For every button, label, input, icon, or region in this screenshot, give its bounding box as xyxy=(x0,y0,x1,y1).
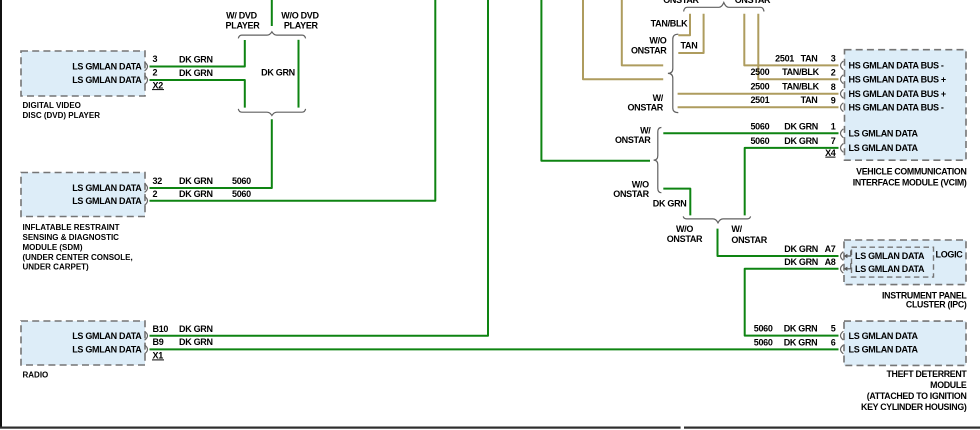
svg-text:ONSTAR: ONSTAR xyxy=(667,234,703,244)
module box RADIO xyxy=(21,321,145,365)
svg-text:X2: X2 xyxy=(153,80,164,90)
svg-text:32: 32 xyxy=(153,176,163,186)
svg-text:UNDER CARPET): UNDER CARPET) xyxy=(23,263,90,272)
svg-text:DK GRN: DK GRN xyxy=(784,257,818,267)
label W/ ONSTAR for HS brace xyxy=(627,93,663,113)
svg-text:INFLATABLE RESTRAINT: INFLATABLE RESTRAINT xyxy=(23,223,120,232)
svg-text:HS GMLAN DATA BUS +: HS GMLAN DATA BUS + xyxy=(849,74,946,84)
svg-text:DK GRN: DK GRN xyxy=(784,324,818,334)
tan wire from top to HS brace upper row xyxy=(583,0,663,79)
svg-text:VEHICLE COMMUNICATION: VEHICLE COMMUNICATION xyxy=(856,167,966,177)
svg-text:CLUSTER (IPC): CLUSTER (IPC) xyxy=(906,299,967,309)
svg-text:HS GMLAN DATA BUS +: HS GMLAN DATA BUS + xyxy=(849,89,946,99)
tan wire TAN/BLK from onstar brace xyxy=(678,14,690,36)
svg-text:(ATTACHED TO IGNITION: (ATTACHED TO IGNITION xyxy=(867,391,967,401)
module box IPC xyxy=(844,240,966,285)
label W/O ONSTAR under merge brace xyxy=(667,224,703,244)
svg-text:DK GRN: DK GRN xyxy=(784,244,818,254)
svg-text:2501: 2501 xyxy=(750,95,769,105)
svg-text:ONSTAR: ONSTAR xyxy=(731,235,767,245)
svg-text:3: 3 xyxy=(831,54,836,64)
svg-text:THEFT DETERRENT: THEFT DETERRENT xyxy=(886,369,967,379)
svg-text:W/: W/ xyxy=(653,93,664,103)
frame left border xyxy=(0,0,2,428)
svg-text:ONSTAR: ONSTAR xyxy=(627,103,663,113)
svg-text:TAN/BLK: TAN/BLK xyxy=(782,82,820,92)
wire DVD pin2 DK GRN xyxy=(150,80,245,108)
svg-text:PLAYER: PLAYER xyxy=(226,21,261,31)
svg-text:7: 7 xyxy=(831,136,836,146)
svg-text:B10: B10 xyxy=(153,324,169,334)
wire SDM pin2 to top edge xyxy=(150,0,436,201)
svg-text:DK GRN: DK GRN xyxy=(179,189,213,199)
svg-text:ONSTAR: ONSTAR xyxy=(613,189,649,199)
svg-text:HS GMLAN DATA BUS -: HS GMLAN DATA BUS - xyxy=(849,102,944,112)
svg-text:DIGITAL VIDEO: DIGITAL VIDEO xyxy=(23,101,81,110)
svg-text:W/ DVD: W/ DVD xyxy=(226,10,257,20)
wire VCIM pin1 DK GRN xyxy=(663,132,838,134)
svg-text:MODULE (SDM): MODULE (SDM) xyxy=(23,243,83,252)
tan wire TAN from onstar brace xyxy=(678,14,703,53)
wire DVD pin3 DK GRN xyxy=(150,40,245,67)
svg-text:W/O: W/O xyxy=(649,36,666,46)
brace ONSTAR top merge xyxy=(684,3,764,12)
svg-text:DK GRN: DK GRN xyxy=(653,198,687,208)
svg-text:DK GRN: DK GRN xyxy=(784,122,818,132)
module name SDM xyxy=(23,223,133,272)
svg-text:MODULE: MODULE xyxy=(930,380,967,390)
svg-text:LS GMLAN DATA: LS GMLAN DATA xyxy=(849,345,919,355)
svg-text:5: 5 xyxy=(831,324,836,334)
label W/ ONSTAR under merge brace xyxy=(731,224,767,245)
svg-text:DK GRN: DK GRN xyxy=(784,136,818,146)
brace LS selection W/ vs W/O ONSTAR xyxy=(654,128,662,193)
svg-text:9: 9 xyxy=(831,95,836,105)
tan wire VCIM pin9 xyxy=(678,106,839,108)
tan wire VCIM pin8 xyxy=(678,93,839,95)
IPC logic inner box xyxy=(852,247,934,277)
connector parens Theft xyxy=(841,331,844,354)
svg-text:X1: X1 xyxy=(153,351,164,361)
wire stub above DVD brace xyxy=(271,0,273,26)
svg-text:5060: 5060 xyxy=(754,337,773,347)
svg-text:W/O: W/O xyxy=(632,180,649,190)
brace DVD merge bottom xyxy=(238,109,305,116)
signal arrow IPC A7 xyxy=(846,251,851,257)
svg-text:TAN: TAN xyxy=(681,40,698,50)
svg-text:5060: 5060 xyxy=(232,176,251,186)
svg-text:5060: 5060 xyxy=(750,122,769,132)
svg-text:INTERFACE MODULE (VCIM): INTERFACE MODULE (VCIM) xyxy=(853,178,967,188)
svg-text:ONSTAR: ONSTAR xyxy=(735,0,771,5)
wire radio B9 to theft pin6 xyxy=(150,348,839,350)
svg-text:ONSTAR: ONSTAR xyxy=(631,46,667,56)
module box SDM xyxy=(21,173,145,217)
svg-text:2501: 2501 xyxy=(775,53,794,63)
svg-text:DK GRN: DK GRN xyxy=(784,337,818,347)
wire W/O onstar stub from LS brace xyxy=(663,189,690,216)
wire radio B10 to top edge xyxy=(150,0,489,336)
svg-text:LS GMLAN DATA: LS GMLAN DATA xyxy=(849,129,919,139)
svg-text:KEY CYLINDER HOUSING): KEY CYLINDER HOUSING) xyxy=(861,402,967,412)
svg-text:DISC (DVD) PLAYER: DISC (DVD) PLAYER xyxy=(23,111,101,120)
svg-text:2500: 2500 xyxy=(750,82,769,92)
connector parens IPC xyxy=(841,252,844,274)
svg-text:W/O: W/O xyxy=(676,224,693,234)
svg-text:LS GMLAN DATA: LS GMLAN DATA xyxy=(849,331,919,341)
svg-text:LS GMLAN DATA: LS GMLAN DATA xyxy=(855,251,925,261)
svg-text:5060: 5060 xyxy=(754,324,773,334)
brace HS selection W/O vs W/ ONSTAR xyxy=(668,34,678,112)
svg-text:ONSTAR: ONSTAR xyxy=(663,0,699,5)
wire IPC A8 to theft pin5 xyxy=(745,269,839,336)
tan wire VCIM pin2 xyxy=(758,14,838,79)
svg-text:LS GMLAN DATA: LS GMLAN DATA xyxy=(72,196,142,206)
svg-text:PLAYER: PLAYER xyxy=(284,21,319,31)
label W/O DVD PLAYER xyxy=(281,10,319,30)
svg-text:B9: B9 xyxy=(153,337,164,347)
svg-text:DK GRN: DK GRN xyxy=(179,337,213,347)
tan wire VCIM pin3 xyxy=(744,14,838,66)
module box Theft Deterrent xyxy=(844,321,966,365)
frame bottom border left segment xyxy=(0,427,681,429)
wire VCIM pin7 down to merge brace xyxy=(745,148,839,216)
svg-text:DK GRN: DK GRN xyxy=(179,55,213,65)
svg-text:LS GMLAN DATA: LS GMLAN DATA xyxy=(855,264,925,274)
svg-text:2500: 2500 xyxy=(750,67,769,77)
svg-text:8: 8 xyxy=(831,82,836,92)
svg-text:A7: A7 xyxy=(825,244,836,254)
svg-text:2: 2 xyxy=(831,67,836,77)
wire from DVD lower brace to SDM pin32 xyxy=(150,119,272,188)
brace merge to IPC xyxy=(683,216,750,222)
connector parens DVD xyxy=(145,62,148,84)
svg-text:LS GMLAN DATA: LS GMLAN DATA xyxy=(72,75,142,85)
svg-text:LS GMLAN DATA: LS GMLAN DATA xyxy=(72,183,142,193)
tan wire from top to HS brace lower row xyxy=(622,0,663,65)
frame bottom border right segment xyxy=(684,427,980,429)
svg-text:TAN/BLK: TAN/BLK xyxy=(782,67,820,77)
svg-text:DK GRN: DK GRN xyxy=(179,176,213,186)
svg-text:HS GMLAN DATA BUS -: HS GMLAN DATA BUS - xyxy=(849,61,944,71)
svg-text:LOGIC: LOGIC xyxy=(936,249,964,259)
module box DVD player xyxy=(21,51,145,96)
svg-text:1: 1 xyxy=(831,122,836,132)
wire merge brace output to IPC A7 xyxy=(718,229,839,256)
svg-text:LS GMLAN DATA: LS GMLAN DATA xyxy=(72,62,142,72)
svg-text:RADIO: RADIO xyxy=(23,371,49,380)
module name Theft Deterrent xyxy=(861,369,967,412)
svg-text:LS GMLAN DATA: LS GMLAN DATA xyxy=(72,331,142,341)
svg-text:3: 3 xyxy=(153,54,158,64)
label W/O ONSTAR for HS brace xyxy=(631,36,667,56)
connector parens RADIO xyxy=(145,331,148,354)
svg-text:5060: 5060 xyxy=(750,136,769,146)
svg-text:DK GRN: DK GRN xyxy=(179,324,213,334)
svg-text:A8: A8 xyxy=(825,257,836,267)
svg-text:5060: 5060 xyxy=(232,189,251,199)
svg-text:ONSTAR: ONSTAR xyxy=(615,135,651,145)
svg-text:6: 6 xyxy=(831,337,836,347)
wire W/O DVD bypass DK GRN xyxy=(298,40,300,108)
svg-text:W/: W/ xyxy=(731,224,742,234)
module name DVD xyxy=(23,101,101,120)
connector parens VCIM xyxy=(841,61,844,152)
svg-text:SENSING & DIAGNOSTIC: SENSING & DIAGNOSTIC xyxy=(23,233,120,242)
connector parens SDM xyxy=(145,184,148,206)
svg-text:DK GRN: DK GRN xyxy=(179,68,213,78)
signal arrow IPC A8 xyxy=(846,263,851,269)
svg-text:2: 2 xyxy=(153,189,158,199)
svg-text:TAN: TAN xyxy=(801,95,818,105)
module name IPC xyxy=(882,290,967,309)
module name VCIM xyxy=(853,167,967,188)
svg-text:(UNDER CENTER CONSOLE,: (UNDER CENTER CONSOLE, xyxy=(23,253,133,262)
svg-text:TAN/BLK: TAN/BLK xyxy=(651,18,689,28)
svg-text:LS GMLAN DATA: LS GMLAN DATA xyxy=(72,345,142,355)
label W/O ONSTAR for LS brace xyxy=(613,180,649,200)
svg-text:DK GRN: DK GRN xyxy=(261,68,295,78)
brace W/ DVD vs W/O DVD top xyxy=(238,32,305,39)
svg-text:W/O DVD: W/O DVD xyxy=(281,10,319,20)
module box VCIM xyxy=(845,50,967,161)
svg-text:TAN: TAN xyxy=(801,53,818,63)
label W/ ONSTAR for LS brace xyxy=(615,126,651,145)
label W/ DVD PLAYER xyxy=(226,10,261,30)
svg-text:2: 2 xyxy=(153,67,158,77)
svg-text:LS GMLAN DATA: LS GMLAN DATA xyxy=(849,143,919,153)
wire from top edge to LS brace point xyxy=(541,0,650,161)
